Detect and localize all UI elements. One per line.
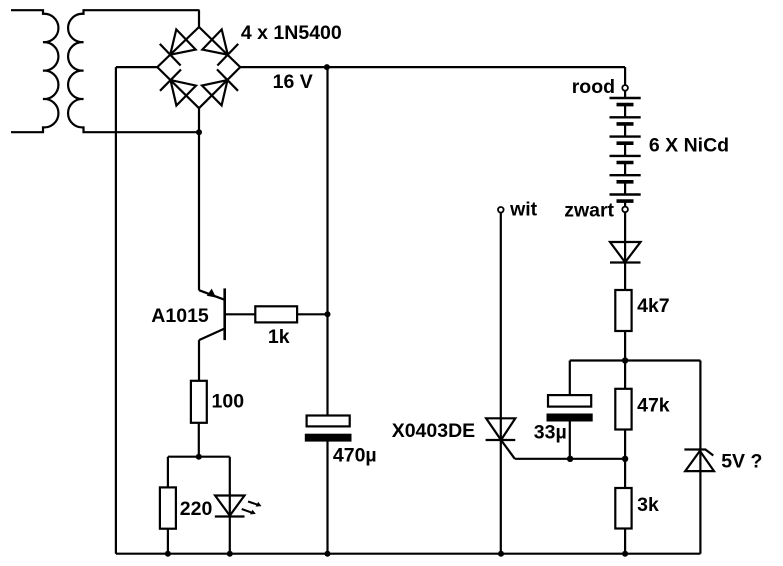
terminal wit circle xyxy=(498,207,504,213)
capacitor C2 33u top wire xyxy=(569,361,571,396)
svg-text:4k7: 4k7 xyxy=(637,295,670,317)
svg-text:5V ?: 5V ? xyxy=(721,451,762,473)
svg-text:1k: 1k xyxy=(268,326,290,348)
node 33u lower junction xyxy=(567,456,573,462)
node transformer/bridge junction xyxy=(196,129,202,135)
resistor R6 47k xyxy=(615,389,631,430)
svg-text:6 X NiCd: 6 X NiCd xyxy=(649,134,729,156)
wire 100 to junction xyxy=(198,423,200,457)
resistor R3 100 xyxy=(191,381,207,423)
bridge rectifier diamond xyxy=(157,27,240,108)
svg-text:3k: 3k xyxy=(637,494,659,516)
resistor R5 4k7 xyxy=(615,290,631,331)
wire to 220 xyxy=(167,457,169,488)
transformer T1 secondary winding xyxy=(68,10,199,132)
wire 470u to bottom rail xyxy=(326,441,328,554)
terminal rood circle xyxy=(622,85,628,91)
capacitor C1 470u bottom plate xyxy=(306,435,351,441)
transformer T1 primary winding xyxy=(11,10,58,132)
svg-text:4 x 1N5400: 4 x 1N5400 xyxy=(241,22,342,44)
LED arrowheads xyxy=(256,502,262,507)
diode D6 xyxy=(610,242,641,263)
node emitter junction xyxy=(196,454,202,460)
wire bridge right vertex to battery column (16V rail) xyxy=(240,66,625,68)
resistor R2 1k xyxy=(255,306,297,322)
node 4k7/47k junction xyxy=(622,357,628,363)
bridge diode D1 (top-left) xyxy=(160,29,196,65)
battery B1 6xNiCd cells xyxy=(610,91,641,207)
wire bottom rail xyxy=(116,553,701,555)
wire transistor emitter to 100 xyxy=(198,340,200,381)
node bottom rail 220 xyxy=(165,551,171,557)
bridge diode D3 (bottom-left) xyxy=(160,70,196,106)
svg-text:X0403DE: X0403DE xyxy=(392,420,475,442)
bridge diode D4 (bottom-right) xyxy=(202,69,238,105)
wire zwart through diode D6 to 4k7 xyxy=(624,212,626,290)
wire 4k7 to 47k xyxy=(624,331,626,389)
wire lower junction horizontal xyxy=(515,458,625,460)
node bottom rail LED xyxy=(227,551,233,557)
LED D5 xyxy=(215,496,259,517)
wire 33u to lower junction xyxy=(569,420,571,458)
svg-text:wit: wit xyxy=(509,199,538,221)
node bottom rail 3k xyxy=(622,551,628,557)
svg-text:470µ: 470µ xyxy=(333,445,377,467)
transistor Q1 A1015 xyxy=(199,288,225,340)
terminal zwart circle xyxy=(622,207,628,213)
wire zener branch vertical xyxy=(699,361,701,554)
wire wit node through thyristor to bottom rail xyxy=(500,213,502,554)
wire 47k to 3k xyxy=(624,430,626,489)
svg-text:100: 100 xyxy=(212,391,245,413)
node 47k/3k junction xyxy=(622,456,628,462)
wire battery column top xyxy=(624,67,626,85)
wire junction through LED to bottom rail xyxy=(229,457,231,554)
wire center rail upper (16V to cap) xyxy=(326,67,328,415)
capacitor C1 470u top plate xyxy=(307,416,350,427)
zener diode D7 5V xyxy=(684,450,714,472)
svg-text:zwart: zwart xyxy=(564,199,614,221)
wire transistor base to 1k xyxy=(225,313,256,315)
wire junction crossbar xyxy=(168,456,230,458)
svg-text:33µ: 33µ xyxy=(534,422,567,444)
svg-text:47k: 47k xyxy=(637,395,670,417)
svg-text:220: 220 xyxy=(180,498,213,520)
wire 220 to bottom rail xyxy=(167,529,169,554)
wire gate row upper horizontal xyxy=(570,359,701,361)
node 1k/center rail xyxy=(325,311,331,317)
node dots xyxy=(165,64,628,557)
wire secondary top to bridge xyxy=(198,10,200,27)
svg-text:16 V: 16 V xyxy=(273,71,313,93)
wire bridge left vertex to left rail xyxy=(116,66,157,68)
resistor R4 220 xyxy=(160,487,176,528)
thyristor U1 X0403DE xyxy=(486,418,516,459)
wire left rail vertical xyxy=(115,67,117,554)
svg-text:rood: rood xyxy=(572,76,615,98)
resistor R7 3k xyxy=(615,488,631,529)
node bottom rail 470u xyxy=(325,551,331,557)
node 16V junction xyxy=(324,64,330,70)
node bottom rail thyristor xyxy=(498,551,504,557)
wire bridge bottom to transistor xyxy=(198,108,200,290)
capacitor C2 33u top plate xyxy=(548,395,591,407)
wire 3k to bottom rail xyxy=(624,529,626,554)
capacitor C2 33u bottom plate xyxy=(548,415,592,421)
svg-text:A1015: A1015 xyxy=(151,305,209,327)
wire 1k to center rail xyxy=(297,313,327,315)
bridge diode D2 (top-right) xyxy=(202,29,238,65)
